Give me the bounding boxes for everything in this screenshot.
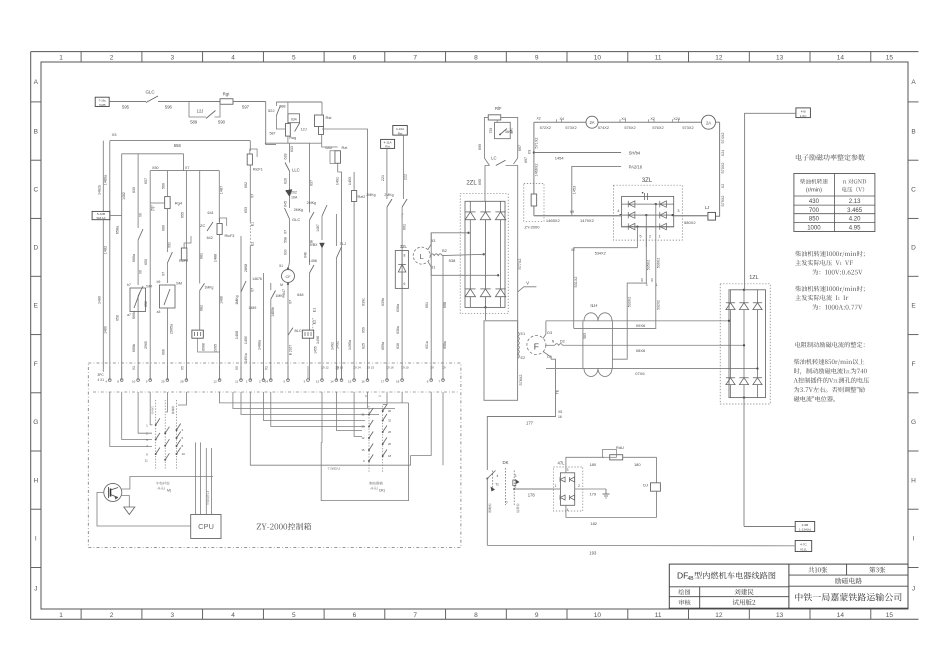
ammeter 2A b <box>702 115 716 129</box>
wires 639c 639b 636a <box>367 214 369 380</box>
ILH loop side verticals <box>582 321 584 369</box>
2ZL diodes top row <box>465 212 475 220</box>
svg-text:F: F <box>912 361 916 368</box>
svg-text:6: 6 <box>404 282 406 286</box>
svg-text:8988: 8988 <box>202 343 206 351</box>
svg-text:583: 583 <box>583 333 587 339</box>
svg-text:1465X2: 1465X2 <box>546 218 561 223</box>
terminal LJ <box>708 212 716 220</box>
table 电子励磁功率整定参数 <box>796 154 865 160</box>
svg-text:32: 32 <box>388 419 392 423</box>
switch LC <box>496 160 506 165</box>
svg-text:1: 1 <box>59 54 63 61</box>
svg-text:12: 12 <box>715 612 723 619</box>
svg-text:L: L <box>420 254 424 261</box>
svg-text:1ZL: 1ZL <box>749 275 758 281</box>
svg-text:590: 590 <box>218 120 226 125</box>
svg-text:32L: 32L <box>400 244 408 249</box>
svg-text:M): M) <box>167 489 171 493</box>
svg-text:2MKg: 2MKg <box>366 193 375 197</box>
svg-text:1492: 1492 <box>330 342 334 350</box>
wire 1480a <box>109 141 111 381</box>
svg-text:180: 180 <box>589 462 596 467</box>
diode arrow 202/10A <box>286 190 293 197</box>
svg-text:15: 15 <box>886 612 894 619</box>
svg-text:10: 10 <box>594 612 602 619</box>
svg-text:G: G <box>911 419 916 426</box>
svg-text:202: 202 <box>291 191 297 195</box>
connector 5-12B SM-b4 <box>92 211 110 219</box>
branch SH/b4 <box>534 152 621 154</box>
svg-text:J: J <box>34 585 37 592</box>
switch box SM a7 <box>130 288 146 312</box>
svg-text:J: J <box>912 585 915 592</box>
svg-text:52J: 52J <box>268 108 274 113</box>
svg-text:X7: X7 <box>284 230 288 234</box>
title block <box>669 564 908 608</box>
svg-text:636a: 636a <box>396 304 400 312</box>
svg-text:572X2: 572X2 <box>540 125 551 130</box>
svg-text:G: G <box>33 419 38 426</box>
svg-text:ZC: ZC <box>200 223 205 228</box>
svg-text:X2: X2 <box>571 248 575 252</box>
svg-text:3ZL: 3ZL <box>642 178 653 184</box>
svg-text:2A: 2A <box>589 120 594 125</box>
svg-text:587: 587 <box>270 132 276 136</box>
svg-text:658: 658 <box>116 315 120 321</box>
svg-text:1MKg: 1MKg <box>235 295 239 304</box>
svg-text:580X2: 580X2 <box>684 220 696 225</box>
svg-text:682: 682 <box>200 305 204 311</box>
svg-text:1482b: 1482b <box>97 185 101 195</box>
svg-text:X12L: X12L <box>800 548 808 552</box>
svg-text:598: 598 <box>284 237 288 243</box>
svg-text:DJ: DJ <box>643 483 648 488</box>
svg-text:571X2: 571X2 <box>535 138 539 149</box>
svg-text:GLC: GLC <box>145 90 154 95</box>
svg-text:14676: 14676 <box>252 277 262 281</box>
svg-text:1000: 1000 <box>807 225 821 231</box>
wire 193 <box>486 479 488 546</box>
svg-text:2: 2 <box>649 235 651 239</box>
field winding E1/E2 <box>517 331 519 333</box>
svg-text:3: 3 <box>515 474 517 478</box>
svg-text:Rst: Rst <box>326 115 333 120</box>
svg-text:13: 13 <box>776 54 784 61</box>
svg-text:12J: 12J <box>301 128 307 132</box>
svg-text:1489: 1489 <box>249 306 257 310</box>
wire 595 <box>109 101 146 103</box>
wire 658a <box>121 154 123 380</box>
svg-text:222: 222 <box>404 174 408 180</box>
wire 1482b (left parallel) <box>102 141 104 372</box>
1ZL output down <box>743 398 745 527</box>
svg-text:E1: E1 <box>313 308 317 312</box>
cluster top bus <box>276 101 322 103</box>
svg-text:1491: 1491 <box>335 177 339 185</box>
inner loop 729/34Hg/740 <box>496 120 498 122</box>
svg-text:661: 661 <box>402 224 406 230</box>
svg-text:3: 3 <box>567 468 569 472</box>
svg-text:574X2: 574X2 <box>598 125 609 130</box>
svg-text:1482: 1482 <box>122 192 126 200</box>
svg-text:648: 648 <box>297 293 303 297</box>
svg-text:4: 4 <box>231 612 235 619</box>
svg-text:589: 589 <box>190 120 198 125</box>
svg-text:9: 9 <box>535 54 539 61</box>
border frame outer <box>31 51 919 53</box>
winding B2 <box>430 254 442 256</box>
svg-text:30: 30 <box>388 409 392 413</box>
branch PA2/16 <box>572 166 621 215</box>
right vertical 574X2 to LJ <box>716 122 720 216</box>
svg-text:15: 15 <box>348 380 352 384</box>
svg-text:4: 4 <box>231 54 235 61</box>
wire 1487/RicF3 <box>218 171 220 222</box>
svg-text:E: E <box>911 303 916 310</box>
svg-text:4-10A: 4-10A <box>396 127 405 131</box>
svg-text:12: 12 <box>715 54 723 61</box>
svg-text:2965a: 2965a <box>170 323 174 334</box>
CPU block <box>191 515 221 539</box>
svg-text:RicF1: RicF1 <box>253 167 263 171</box>
svg-text:H: H <box>33 477 38 484</box>
svg-text:1468: 1468 <box>235 331 239 339</box>
long horizontal wires <box>220 392 409 403</box>
svg-text:659: 659 <box>361 327 365 333</box>
svg-text:4: 4 <box>567 508 569 512</box>
svg-text:4.20: 4.20 <box>849 217 861 223</box>
svg-text:637: 637 <box>310 180 314 186</box>
lower box sides below LC <box>485 166 490 202</box>
svg-text:8: 8 <box>474 54 478 61</box>
svg-text:7: 7 <box>413 612 417 619</box>
svg-text:B: B <box>911 128 915 135</box>
svg-text:E: E <box>34 303 39 310</box>
svg-text:574X2: 574X2 <box>721 133 725 144</box>
box outline around DK bank <box>321 403 408 501</box>
svg-text:1488: 1488 <box>220 296 224 304</box>
svg-text:X2: X2 <box>537 117 541 121</box>
RlF loop outer right 697 <box>501 117 518 164</box>
svg-text:Rwg: Rwg <box>289 136 296 140</box>
F to wires <box>543 321 546 339</box>
CPU input wires <box>195 442 197 514</box>
svg-text:1480: 1480 <box>97 296 101 304</box>
svg-text:2965: 2965 <box>144 341 148 349</box>
svg-text:RlF: RlF <box>495 106 502 111</box>
svg-text:850: 850 <box>809 217 820 223</box>
svg-text:2ZL: 2ZL <box>466 181 477 187</box>
svg-text:3PC: 3PC <box>98 373 105 377</box>
svg-text:2MKg: 2MKg <box>294 208 303 212</box>
svg-text:531X2: 531X2 <box>574 277 578 288</box>
svg-text:4-B: 4-B <box>801 109 806 113</box>
svg-text:634: 634 <box>291 118 297 122</box>
svg-text:3: 3 <box>646 283 648 287</box>
svg-text:655: 655 <box>180 212 184 218</box>
svg-text:1495a: 1495a <box>348 340 352 350</box>
contact E-chain to pin row <box>310 265 315 273</box>
svg-text:1496: 1496 <box>309 259 317 263</box>
svg-text:1-6C: 1-6C <box>800 114 807 118</box>
svg-text:1488: 1488 <box>214 254 218 262</box>
svg-text:193: 193 <box>589 551 597 556</box>
connector X4/B <box>95 97 109 106</box>
connector 4-10A Rzt <box>393 126 408 136</box>
svg-text:E2: E2 <box>251 242 255 246</box>
wire 661 <box>401 214 403 218</box>
DK right pole <box>513 471 515 506</box>
connector pins <box>108 379 111 382</box>
svg-text:Rzt: Rzt <box>342 145 349 150</box>
svg-text:17: 17 <box>381 380 385 384</box>
svg-text:ILH: ILH <box>590 303 597 308</box>
transistor <box>104 483 122 501</box>
svg-text:07X6: 07X6 <box>635 371 645 376</box>
svg-text:626: 626 <box>284 178 288 184</box>
svg-text:651: 651 <box>425 302 429 308</box>
svg-text:1-13A(b): 1-13A(b) <box>799 528 811 532</box>
note text block 1 <box>795 251 864 257</box>
connector strip lines <box>93 391 458 393</box>
relay 12J branch <box>189 102 206 118</box>
svg-text:1480: 1480 <box>104 326 108 334</box>
svg-text:4: 4 <box>617 209 619 213</box>
svg-text:2MKg: 2MKg <box>307 201 316 205</box>
svg-text:652: 652 <box>144 301 148 307</box>
svg-text:630: 630 <box>284 249 288 255</box>
svg-text:588: 588 <box>280 105 286 109</box>
svg-text:662: 662 <box>244 182 248 188</box>
svg-text:E1: E1 <box>521 332 526 336</box>
wire 09X6 <box>546 320 729 322</box>
svg-text:2: 2 <box>110 54 114 61</box>
wire 657/Rg4 chain <box>149 171 151 381</box>
wire 531X2 <box>574 248 638 329</box>
transistor wiring <box>122 477 213 490</box>
svg-text:650: 650 <box>144 259 148 265</box>
svg-text:X1: X1 <box>264 366 268 370</box>
22L output loop <box>485 307 487 320</box>
svg-text:666a: 666a <box>132 253 136 262</box>
svg-text:535X2: 535X2 <box>647 260 651 270</box>
svg-text:E2: E2 <box>521 356 526 360</box>
resistor Rzt2 <box>352 191 357 202</box>
svg-text:Tz: Tz <box>495 483 499 487</box>
svg-text:7: 7 <box>413 54 417 61</box>
svg-text:X50: X50 <box>168 242 172 248</box>
reactor L <box>413 247 430 264</box>
svg-text:1MKg: 1MKg <box>276 294 285 298</box>
svg-text:X5: X5 <box>558 410 562 414</box>
border frame inner <box>41 62 908 609</box>
contact ZC + resistor RicF3 <box>207 222 213 231</box>
svg-text:533X2: 533X2 <box>628 297 632 307</box>
svg-text:3: 3 <box>677 209 679 213</box>
top-right bus <box>534 121 701 123</box>
svg-text:666c: 666c <box>132 311 136 319</box>
contact 12J <box>295 123 300 132</box>
svg-text:13: 13 <box>316 380 320 384</box>
wire 1468 <box>240 236 242 380</box>
svg-text:X3: X3 <box>112 132 118 137</box>
svg-text:I: I <box>35 536 37 543</box>
motor CF <box>282 270 295 283</box>
svg-text:D: D <box>33 245 38 252</box>
svg-text:595: 595 <box>122 105 130 110</box>
ZY-2000 aux dashed box <box>524 183 544 221</box>
svg-text:573X2: 573X2 <box>682 125 693 130</box>
svg-text:BLC: BLC <box>295 329 302 333</box>
svg-text:09X6: 09X6 <box>636 323 646 328</box>
svg-text:577X2: 577X2 <box>518 259 522 270</box>
left vertical 571X2 <box>533 122 535 216</box>
svg-text:1: 1 <box>59 612 63 619</box>
svg-text:536X2: 536X2 <box>657 258 661 268</box>
svg-text:A: A <box>911 79 916 86</box>
svg-text:10: 10 <box>132 380 136 384</box>
contact 52J <box>275 102 277 106</box>
svg-text:X6: X6 <box>138 270 142 274</box>
svg-text:(r/min): (r/min) <box>806 188 822 194</box>
svg-text:697: 697 <box>518 145 522 151</box>
svg-text:CPU: CPU <box>198 522 214 531</box>
svg-text:X7: X7 <box>251 288 255 292</box>
svg-text:681: 681 <box>200 253 204 259</box>
svg-text:H: H <box>911 477 916 484</box>
svg-text:10: 10 <box>594 54 602 61</box>
wire 666/X50 chain <box>166 171 168 197</box>
svg-text:645: 645 <box>284 201 288 207</box>
wire B1 <box>428 262 498 276</box>
svg-text:2MKg: 2MKg <box>384 193 393 197</box>
svg-text:C: C <box>33 187 38 194</box>
svg-text:28: 28 <box>180 380 184 384</box>
svg-text:RcF2: RcF2 <box>179 259 188 263</box>
svg-text:X6: X6 <box>138 213 142 217</box>
svg-text:575X2: 575X2 <box>624 125 635 130</box>
svg-text:1454: 1454 <box>555 156 565 161</box>
ILH loop cross wire <box>574 327 657 329</box>
svg-text:X9: X9 <box>430 366 434 370</box>
wire to 52J cluster <box>266 102 276 145</box>
svg-text:10: 10 <box>182 452 186 456</box>
svg-text:14: 14 <box>837 54 845 61</box>
switch GLC <box>146 96 158 103</box>
ZY-2000 control box (dashed) <box>88 363 461 547</box>
svg-text:18: 18 <box>396 380 400 384</box>
contact GLC lower <box>285 208 290 219</box>
svg-text:TE: TE <box>556 389 560 394</box>
svg-text:Rzt: Rzt <box>398 131 403 135</box>
svg-text:Rzt2: Rzt2 <box>358 195 366 199</box>
resistor Rst <box>321 102 323 115</box>
svg-text:570X2: 570X2 <box>721 163 725 174</box>
relay DJ <box>656 457 658 483</box>
svg-text:Rzt: Rzt <box>385 145 390 149</box>
svg-text:DK): DK) <box>379 489 385 493</box>
svg-text:8: 8 <box>474 612 478 619</box>
main bus 215.7 <box>534 215 614 217</box>
svg-text:646: 646 <box>303 252 307 258</box>
svg-text:699: 699 <box>478 144 482 150</box>
svg-text:221: 221 <box>381 175 385 181</box>
svg-text:6: 6 <box>353 612 357 619</box>
svg-text:08X6: 08X6 <box>636 348 646 353</box>
svg-text:1455: 1455 <box>314 346 318 354</box>
contact 7LJ <box>335 214 337 246</box>
svg-text:573X2: 573X2 <box>565 125 576 130</box>
wire B2 <box>442 255 484 257</box>
svg-text:D2: D2 <box>560 340 565 344</box>
svg-text:695: 695 <box>478 179 482 185</box>
connector 4-7C <box>795 541 812 552</box>
svg-text:14: 14 <box>837 612 845 619</box>
wire 666a chain <box>137 154 139 228</box>
svg-text:F: F <box>534 342 539 352</box>
wire B3 <box>428 233 469 250</box>
svg-text:596: 596 <box>165 105 173 110</box>
ruler row ticks left/right <box>31 101 41 103</box>
svg-text:1488a: 1488a <box>257 340 261 350</box>
M gear switch columns <box>155 400 157 470</box>
svg-text:a3: a3 <box>157 310 161 314</box>
svg-text:697: 697 <box>524 157 528 163</box>
svg-text:1466X2: 1466X2 <box>535 163 539 176</box>
ammeter 2A a <box>586 116 598 128</box>
svg-text:12J: 12J <box>197 109 204 114</box>
svg-text:26: 26 <box>388 430 392 434</box>
chain 633/LLC/626 down to CF <box>289 143 291 162</box>
svg-text:24: 24 <box>265 380 269 384</box>
svg-text:3: 3 <box>170 612 174 619</box>
svg-text:578X2: 578X2 <box>519 375 523 386</box>
fuse box 2 <box>302 330 313 338</box>
transistor left loop <box>97 492 191 526</box>
diode BX <box>320 243 325 248</box>
svg-text:633: 633 <box>290 146 294 152</box>
svg-text:2868: 2868 <box>244 264 248 272</box>
svg-text:51: 51 <box>279 264 283 268</box>
ruler column ticks top/bottom <box>80 52 82 62</box>
svg-text:182: 182 <box>590 521 597 526</box>
svg-text:1: 1 <box>656 283 658 287</box>
svg-text:D: D <box>911 245 916 252</box>
svg-text:SM: SM <box>146 284 152 289</box>
svg-text:X2: X2 <box>721 184 725 188</box>
svg-text:1490a: 1490a <box>244 353 248 363</box>
svg-text:177: 177 <box>526 421 534 426</box>
long wire to 1ZL <box>745 113 796 283</box>
svg-text:641: 641 <box>208 211 214 215</box>
svg-text:14: 14 <box>330 380 334 384</box>
svg-text:X24: X24 <box>721 150 725 156</box>
svg-text:639b: 639b <box>381 298 385 306</box>
svg-text:3: 3 <box>170 54 174 61</box>
svg-text:6: 6 <box>353 54 357 61</box>
resistor Rwg <box>286 124 291 137</box>
svg-text:BX: BX <box>313 243 318 247</box>
2ZL diodes bottom row <box>465 289 475 297</box>
svg-text:18: 18 <box>388 454 392 458</box>
svg-text:11: 11 <box>145 458 148 462</box>
svg-text:830: 830 <box>132 187 136 193</box>
connector 2-9B <box>795 522 815 532</box>
svg-text:A: A <box>34 79 39 86</box>
svg-text:2A: 2A <box>706 120 711 125</box>
svg-text:698a: 698a <box>443 341 447 349</box>
